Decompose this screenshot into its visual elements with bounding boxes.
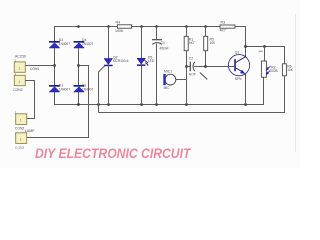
sheet border faint right edge [295,14,297,152]
svg-text:100K: 100K [115,29,124,33]
svg-text:LAMP: LAMP [25,129,35,133]
svg-text:4n7F: 4n7F [189,73,196,77]
node junction dot R1 column top rail [185,25,188,28]
svg-text:LED: LED [148,59,155,63]
wire AC input from connector J1 to node A [25,65,54,67]
wire bottom rail1 DC- with left riser from D1 and right riser to R2 preset bottom [55,77,264,104]
svg-text:1: 1 [19,67,21,71]
transistor Q1 [228,55,249,76]
svg-text:1: 1 [19,80,21,84]
wire R5 bottom to base node [205,51,207,67]
wire collector net to preset and R6 tops [246,47,285,64]
preset R2 body [261,61,266,77]
node junction dot R5 column top rail [204,25,207,28]
connector J4 terminal [16,133,27,144]
connector J3 terminal [16,114,27,125]
node junction dot C1 rail1 [155,103,158,106]
wire SCR cathode to rail1 [108,66,110,104]
wire R1 bottom down mic column to rail1 [186,51,188,105]
wire base net C2 to Q1 base [194,66,234,68]
wire J2 to J3 link [25,81,34,119]
microphone MIC1 [163,74,176,85]
wire SCR anode from top rail [108,27,110,59]
svg-text:MIC: MIC [164,86,171,90]
node junction dot base net R5 [204,65,207,68]
resistor R6 body [282,64,286,76]
node junction dot Q1 emitter rail1 [244,103,247,106]
svg-text:NPN: NPN [235,77,242,81]
svg-text:450nF: 450nF [160,46,169,50]
wire bridge column B bottom (D2 to rail1) [78,92,80,105]
svg-text:C2: C2 [189,57,193,61]
node junction dot C1 column top rail [155,25,158,28]
wire bridge column A middle [54,48,56,85]
node junction dot A AC input [53,64,56,67]
wire R1 top from rail [186,27,188,37]
node junction dot preset top [263,45,266,48]
resistor R4 body [117,25,131,28]
svg-text:10K: 10K [210,41,217,45]
capacitor C1 [152,40,162,45]
wire LED anode from top rail [141,27,143,59]
wire top rail left segment with corner down to bridge column A [55,27,118,42]
annotation diagonal mark near base node [200,73,208,80]
diode D3 [49,41,60,48]
node junction dot LED rail1 [140,103,143,106]
wire preset top riser [264,47,266,62]
svg-text:1: 1 [20,138,22,142]
wiper tick mark [259,50,263,52]
svg-text:AC230: AC230 [15,54,26,58]
node junction dot mic column rail1 [185,103,188,106]
capacitor C2 [187,62,195,72]
thyristor Q2 [104,59,113,67]
svg-text:202B: 202B [270,69,277,73]
svg-text:MCR100-6: MCR100-6 [113,59,129,63]
node junction dot SCR column top rail [107,25,110,28]
svg-text:R3: R3 [221,20,226,24]
svg-text:4K7: 4K7 [189,41,195,45]
wire top rail right segment with corner down to Q1 collector [235,27,246,55]
wire Q1 collector inside riser [245,55,247,57]
wire C1 top from rail [156,27,158,40]
wire node B to lamp return (down and left to J4) [27,66,89,138]
wire LED cathode to rail1 [141,66,143,105]
connector J1 terminal [14,62,25,72]
wire top rail middle segment [132,26,221,28]
LED D5 [137,58,149,66]
svg-text:1N4007: 1N4007 [59,87,70,91]
wire bridge column B middle [78,48,80,85]
wire mic output to R1 column [176,79,187,81]
node junction dot B AC input [77,64,80,67]
svg-text:1N4007: 1N4007 [82,42,93,46]
svg-text:Q1: Q1 [235,50,240,54]
node junction dot SCR cathode rail1 [107,103,110,106]
wire SCR gate diagonal and riser down to rail2 [99,66,105,113]
svg-text:R4: R4 [116,21,121,25]
svg-text:4K7: 4K7 [220,29,226,33]
node junction dot C2 tap [185,65,188,68]
resistor R5 body [204,36,208,50]
connector J2 terminal [14,75,25,85]
resistor R1 body [184,36,188,50]
svg-text:1: 1 [20,119,22,123]
node junction dot collector net [244,45,247,48]
resistor R3 body [220,25,235,28]
svg-text:CON2: CON2 [13,88,23,92]
diode D4 [74,41,85,48]
svg-text:C1: C1 [161,41,165,45]
svg-text:1N4007: 1N4007 [82,87,93,91]
svg-text:10K: 10K [287,68,294,72]
diode D1 [49,85,60,92]
wire Q1 emitter to rail1 [245,74,247,105]
diode D2 [74,85,85,92]
svg-text:CON2: CON2 [15,126,25,130]
svg-text:CON1: CON1 [30,67,40,71]
svg-text:CON3: CON3 [15,146,25,150]
preset R2 wiper arrows [266,66,271,75]
svg-text:1N4007: 1N4007 [59,42,70,46]
watermark DIY ELECTRONIC CIRCUIT [35,145,190,161]
node junction dot LED column top rail [140,25,143,28]
wire R5 top from rail [205,27,207,37]
wire bottom rail2 from gate riser to right column [99,76,285,113]
svg-text:MIC1: MIC1 [164,69,172,73]
node junction dot D2 rail1 [77,103,80,106]
wire C1 bottom to rail1 [156,44,158,105]
node junction dot column B top rail [77,25,80,28]
node junction dot gate riser rail1 [97,103,100,106]
